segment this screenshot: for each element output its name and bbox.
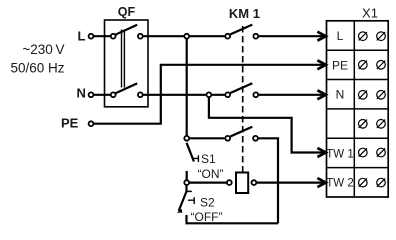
input terminal circles [89, 34, 94, 39]
svg-text:L: L [78, 29, 86, 44]
QF pole N blade [116, 83, 138, 93]
coil KM1 [236, 173, 248, 194]
KM1 contact L blade [230, 25, 252, 35]
wire PE to X1 terminal [94, 65, 324, 124]
pushbutton S2 blade [179, 191, 187, 211]
wire N input [94, 94, 110, 96]
junction nodes [184, 34, 189, 39]
svg-text:N: N [77, 86, 86, 101]
terminal block X1 [327, 21, 389, 197]
label ~230V 50/60Hz [10, 42, 64, 76]
wire KM1 aux contact down to S2 bottom [259, 138, 279, 223]
circuit breaker QF box [105, 20, 149, 107]
pushbutton S2 NC bar [187, 190, 192, 192]
wire node on N to TW1 terminal [209, 95, 324, 153]
svg-text:TW 1: TW 1 [326, 148, 353, 160]
pushbutton S1 blade [187, 143, 194, 162]
QF mechanical link [122, 30, 125, 88]
svg-text:KM 1: KM 1 [229, 6, 260, 21]
X1 screw terminals [359, 32, 386, 187]
svg-text:PE: PE [61, 116, 79, 131]
svg-text:“OFF”: “OFF” [191, 210, 223, 224]
KM1 aux contact blade [230, 127, 252, 137]
svg-text:TW 2: TW 2 [326, 178, 353, 190]
KM1 contact terminals [225, 34, 230, 39]
svg-text:X1: X1 [362, 5, 378, 20]
coil terminals [227, 180, 232, 185]
pushbutton S2 actuator [188, 197, 194, 204]
wire L contact to X1 terminal [259, 35, 324, 37]
svg-text:50/60 Hz: 50/60 Hz [10, 61, 64, 76]
wire L branch down to S1 [186, 36, 188, 138]
wire S2 bottom to junction under coil [187, 215, 279, 223]
wire S1 node to KM1 aux contact [187, 137, 225, 139]
svg-text:“ON”: “ON” [198, 167, 224, 181]
svg-text:S1: S1 [201, 152, 216, 166]
wire L from QF to KM1 [143, 35, 224, 37]
pushbutton S1 bottom stub [186, 171, 188, 183]
svg-text:S2: S2 [200, 196, 215, 210]
svg-text:QF: QF [118, 5, 136, 19]
wire coil to X1 TW2 terminal [254, 182, 324, 184]
pushbutton S1 actuator [193, 155, 198, 162]
QF contact terminals [111, 34, 116, 39]
svg-text:N: N [336, 88, 345, 102]
KM1 dashed mechanical link [242, 26, 244, 172]
svg-text:~230 V: ~230 V [22, 42, 64, 57]
pushbutton S2 top stub [185, 183, 187, 192]
wire S1 bottom node to coil [187, 182, 229, 184]
QF pole L blade [116, 25, 138, 35]
svg-text:PE: PE [332, 58, 348, 72]
wire N from QF to KM1 [143, 94, 224, 96]
wire N contact to X1 terminal [259, 94, 324, 96]
KM1 contact N blade [230, 83, 252, 93]
svg-text:L: L [337, 29, 344, 43]
wire L input [94, 35, 110, 37]
